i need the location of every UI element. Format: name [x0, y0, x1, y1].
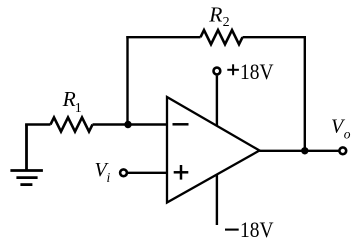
ground — [10, 125, 43, 185]
wire top rail right segment — [243, 36, 307, 38]
plus pin label — [174, 165, 189, 180]
resistor R1 — [51, 117, 93, 131]
minus pin label — [173, 123, 189, 126]
node B (output junction) — [301, 147, 308, 154]
terminal Vo — [339, 147, 346, 154]
svg-text:18V: 18V — [240, 218, 274, 242]
wire R1 to inverting input — [93, 123, 168, 125]
terminal Vi — [120, 169, 127, 176]
resistor R2 — [201, 30, 243, 44]
wire node A up to feedback rail — [126, 36, 128, 125]
wire +18V to op-amp top — [216, 76, 218, 126]
terminal +18V — [214, 68, 221, 75]
node A (junction at inverting input) — [124, 121, 131, 128]
svg-text:o: o — [344, 127, 351, 142]
wire right rail down to output — [304, 36, 306, 151]
wire ground to R1 — [25, 123, 50, 125]
svg-text:i: i — [107, 170, 111, 185]
wire op-amp bottom to -18V — [216, 174, 218, 225]
svg-text:18V: 18V — [240, 60, 274, 84]
svg-text:R: R — [62, 87, 76, 111]
svg-text:2: 2 — [223, 15, 230, 30]
wire top rail left segment — [126, 36, 200, 38]
label -18V — [225, 229, 239, 231]
label +18V — [227, 64, 239, 75]
wire output — [260, 150, 339, 152]
wire Vi to non-inverting input — [128, 172, 167, 174]
svg-text:R: R — [208, 2, 222, 26]
svg-text:1: 1 — [75, 101, 82, 116]
op-amp U1 — [167, 97, 260, 203]
